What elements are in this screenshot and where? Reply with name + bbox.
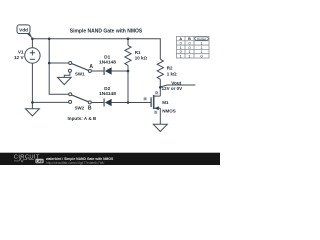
truth table: [176, 36, 209, 58]
wire M1 source to ground: [159, 108, 161, 124]
svg-text:LAB: LAB: [36, 159, 43, 163]
svg-text:1N4148: 1N4148: [99, 59, 116, 65]
wire D1 to node: [111, 70, 128, 72]
svg-text:Vout: Vout: [171, 80, 181, 85]
switch SW2 (input B): [69, 93, 92, 111]
node Vout flag: [161, 80, 196, 91]
svg-text:http://circuitlab.com/c/4g477e: http://circuitlab.com/c/4g477edeb6c7b8/: [46, 161, 104, 165]
footer logo LAB box: [35, 159, 43, 163]
footer bar: [0, 153, 220, 165]
switch SW1 (input A): [68, 62, 91, 77]
wire ground rail to SW2 lower throw: [32, 101, 68, 103]
node junction ground rail: [31, 101, 34, 104]
svg-text:R2: R2: [167, 66, 173, 71]
wire R1 bottom lead: [127, 65, 129, 71]
node junction rail2 top: [48, 38, 51, 41]
wire branch to SW1 upper throw: [49, 62, 69, 64]
wire left branch rail down to SW2 upper throw: [49, 39, 69, 95]
transistor M1 NMOS: [151, 95, 176, 113]
svg-text:V1: V1: [18, 49, 24, 54]
svg-text:NMOS: NMOS: [162, 108, 176, 113]
svg-text:M1: M1: [162, 100, 169, 105]
diode D2 1N4148: [99, 86, 116, 107]
svg-text:B: B: [88, 106, 92, 112]
wire R2 bottom lead to Vout node: [159, 79, 161, 87]
footer logo waveform: [14, 158, 34, 162]
svg-text:12V or 0V: 12V or 0V: [162, 86, 183, 91]
svg-text:0: 0: [200, 54, 202, 58]
resistor R2 1 kOhm: [157, 59, 177, 79]
pin S label: [154, 110, 158, 114]
svg-text:1 kΩ: 1 kΩ: [167, 71, 177, 76]
node junction Vout: [159, 86, 162, 89]
svg-text:Output: Output: [197, 37, 206, 41]
svg-text:SW1: SW1: [75, 71, 85, 76]
wire Vout node to drain stub: [159, 87, 161, 96]
wire R1 top lead: [127, 39, 129, 46]
pin D label: [155, 91, 159, 95]
svg-text:R1: R1: [135, 50, 141, 55]
wire D2 to gate of M1: [111, 102, 151, 104]
svg-text:1: 1: [188, 54, 190, 58]
svg-text:Inputs: A & B: Inputs: A & B: [68, 116, 97, 121]
table header Output: [195, 37, 208, 41]
node junction D1/R1: [127, 70, 130, 73]
node junction D2/gate: [127, 101, 130, 104]
wire V1 top lead: [31, 39, 33, 48]
svg-text:G: G: [144, 97, 147, 101]
wire node vertical D1-D2: [127, 71, 129, 103]
svg-text:Simple NAND Gate with NMOS: Simple NAND Gate with NMOS: [70, 29, 143, 35]
svg-text:1: 1: [180, 54, 182, 58]
svg-text:10 kΩ: 10 kΩ: [135, 56, 148, 61]
resistor R1 10 kOhm: [125, 45, 148, 65]
node Vdd label: [17, 25, 33, 39]
svg-text:Vdd: Vdd: [19, 28, 28, 33]
diode D1 1N4148: [99, 54, 116, 75]
wire SW1 common to D1: [91, 70, 103, 72]
ground (M1 source): [153, 124, 167, 131]
svg-text:SW2: SW2: [75, 105, 85, 110]
node junction R1 top: [127, 38, 130, 41]
wire V1 bottom lead: [31, 63, 33, 102]
svg-text:1N4148: 1N4148: [99, 91, 116, 97]
svg-text:A: A: [89, 64, 93, 70]
wire top Vdd rail with corner to R2: [32, 39, 160, 60]
wire SW2 common to D2: [91, 102, 103, 104]
svg-text:12 V: 12 V: [14, 55, 25, 60]
node junction Vdd/V1: [31, 38, 34, 41]
voltage source V1 12 V: [14, 48, 40, 63]
ground (SW1 lower throw): [58, 72, 72, 85]
node junction SW1 branch: [48, 62, 51, 65]
ground (V1 / SW2 lower throw): [25, 102, 39, 116]
pin G label: [143, 97, 147, 101]
